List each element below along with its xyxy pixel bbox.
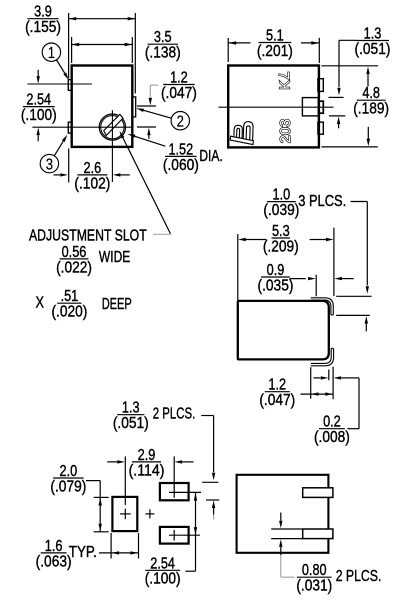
svg-text:2 PLCS.: 2 PLCS. — [153, 406, 196, 423]
svg-text:K: K — [277, 80, 293, 90]
svg-text:(.051): (.051) — [355, 41, 391, 58]
svg-text:(.102): (.102) — [74, 175, 110, 192]
svg-text:(.035): (.035) — [258, 277, 294, 294]
svg-text:2 PLCS.: 2 PLCS. — [336, 568, 382, 585]
svg-text:7: 7 — [275, 72, 291, 80]
svg-text:(.047): (.047) — [259, 392, 295, 409]
svg-text:DEEP: DEEP — [102, 296, 132, 313]
svg-text:(.039): (.039) — [263, 202, 299, 219]
svg-text:(.063): (.063) — [36, 553, 72, 570]
svg-text:(.201): (.201) — [257, 43, 293, 60]
svg-text:(.022): (.022) — [56, 259, 92, 276]
svg-text:(.031): (.031) — [296, 578, 332, 595]
svg-text:(.079): (.079) — [50, 478, 86, 495]
svg-text:(.051): (.051) — [113, 415, 149, 432]
svg-text:(.155): (.155) — [25, 19, 61, 36]
svg-text:3 PLCS.: 3 PLCS. — [298, 193, 346, 210]
svg-text:WIDE: WIDE — [99, 249, 130, 266]
svg-text:DIA.: DIA. — [199, 148, 222, 165]
svg-text:3: 3 — [46, 156, 53, 173]
svg-text:(.209): (.209) — [263, 238, 299, 255]
svg-text:(.060): (.060) — [163, 157, 199, 174]
svg-text:(.008): (.008) — [314, 429, 350, 446]
svg-text:(.189): (.189) — [353, 101, 389, 118]
svg-text:(.114): (.114) — [129, 462, 165, 479]
svg-text:1: 1 — [48, 45, 55, 62]
svg-text:(.047): (.047) — [161, 85, 197, 102]
svg-text:TYP.: TYP. — [69, 544, 97, 561]
svg-text:(.020): (.020) — [51, 304, 87, 321]
svg-text:ADJUSTMENT SLOT: ADJUSTMENT SLOT — [29, 227, 147, 244]
svg-text:(.138): (.138) — [145, 45, 181, 62]
svg-text:2: 2 — [177, 114, 184, 131]
svg-text:(.100): (.100) — [145, 571, 181, 588]
svg-text:X: X — [36, 295, 45, 312]
svg-text:203: 203 — [278, 119, 294, 143]
svg-text:(.100): (.100) — [21, 107, 57, 124]
